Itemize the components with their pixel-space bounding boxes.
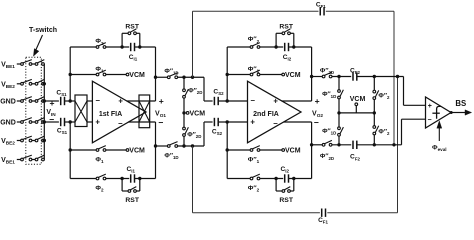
svg-text:+: + [159, 96, 164, 106]
RST switch top stage1 (parallel) [121, 33, 123, 47]
capacitor CS1 top [60, 97, 62, 105]
capacitor CS1 bottom [60, 118, 62, 126]
capacitor C_I2 top [284, 43, 286, 51]
wire Cs1 bottom to chopper [65, 121, 76, 123]
VCM terminal bottom stage2 [282, 149, 285, 152]
node smp-CF1 box top [191, 76, 194, 79]
node tap1-phi1 bottom [69, 148, 72, 151]
comparator output arrow BS [451, 112, 465, 114]
svg-text:+: + [273, 97, 278, 106]
wire to VCM circle top stage2 [260, 74, 282, 76]
center VCM line [339, 112, 374, 114]
wire vcm chain vertical mid1 [183, 77, 185, 89]
node crailB phi''2 [373, 143, 376, 146]
capacitor C_I1 bottom [130, 174, 132, 182]
wire comp rail top [312, 76, 323, 78]
node smp-vcm chain bottom [182, 144, 185, 147]
wire stage2 tap up [226, 47, 228, 101]
node C_I1 left top [120, 45, 123, 48]
switch Phi''2 comp top [373, 90, 376, 93]
node crailT phi''2 [373, 75, 376, 78]
wire phi''2 feedback row bottom [227, 178, 250, 180]
wire stage1 tap down [69, 122, 71, 179]
switch Phi2 bottom stage1 [96, 177, 99, 180]
wire switch to C_I2 [260, 46, 283, 48]
svg-text:RST: RST [125, 24, 139, 31]
svg-text:VCM: VCM [285, 148, 301, 155]
capacitor CF2 bottom [352, 141, 354, 149]
wire to CF2 bottom [332, 144, 351, 146]
node CF2 left top [337, 75, 340, 78]
capacitor C_I2 bottom [284, 174, 286, 182]
T-switch series switches row VBE1 top [17, 63, 21, 65]
svg-text:−: − [427, 117, 431, 124]
svg-text:−: − [250, 96, 255, 105]
VCM terminal top stage1 [126, 73, 129, 76]
comparator clock arrow [438, 128, 440, 141]
svg-text:+: + [118, 97, 123, 106]
wire corner up to Cs2 bottom [203, 122, 205, 146]
wire Cs2 to 2nd amp bottom [218, 121, 247, 123]
wire phi''1 row bottom stage2 [227, 149, 250, 151]
wire CF1 loop right edge 2 (to comp + rail) [397, 77, 399, 213]
wire CF1 loop top edge [193, 10, 319, 12]
chopper CHin stage1 [75, 95, 87, 127]
switch Phi''2D comp rail top [322, 75, 325, 78]
svg-text:GND: GND [0, 120, 16, 127]
svg-text:−: − [49, 115, 54, 125]
comparator hysteresis symbol [437, 106, 441, 118]
switch Phi''2D comp rail bottom [322, 143, 325, 146]
node C_I2 right bottom [292, 177, 295, 180]
RST switch bottom stage2 (parallel) [275, 179, 277, 192]
switch Phi''2D lower mid1 [183, 127, 186, 130]
switch Phi''1 top stage2 [250, 73, 253, 76]
svg-text:RST: RST [279, 24, 293, 31]
node C_I1 right bottom [138, 177, 141, 180]
node tap2 bottom [226, 120, 229, 123]
svg-text:GND: GND [0, 99, 16, 106]
node smp-CF1 box bottom [191, 144, 194, 147]
node smp-vcm chain top [182, 76, 185, 79]
svg-text:1st FIA: 1st FIA [99, 111, 122, 118]
wire comp rail bottom [312, 144, 323, 146]
wire switch to Cs2 corner top [178, 76, 204, 78]
node samp tap bottom stage1 [154, 144, 157, 147]
capacitor CF1 bottom [321, 209, 323, 217]
wire phi2 feedback row bottom [70, 178, 96, 180]
switch Phi''1D bottom sampling [167, 145, 170, 148]
svg-text:T-switch: T-switch [29, 27, 57, 34]
wire feedback bottom to Vo1 [135, 178, 156, 180]
node center line left [337, 111, 340, 114]
switch Phi1 top stage1 [96, 73, 99, 76]
svg-text:+: + [49, 98, 54, 108]
node bus-GND/VIN- [43, 120, 46, 123]
switch Phi''1D top sampling [167, 76, 170, 79]
wire to VCM circle bottom stage2 [260, 149, 282, 151]
wire feedback top to Vo1 [135, 46, 156, 48]
switch Phi''2 top stage2 [250, 46, 253, 49]
svg-text:RST: RST [279, 197, 293, 204]
svg-text:BS: BS [455, 99, 466, 108]
svg-text:−: − [158, 118, 163, 128]
VCM terminal comp [355, 103, 358, 106]
wire phi1 row bottom stage1 [70, 149, 96, 151]
T-switch series switches row VBE1 bottom [17, 159, 21, 161]
switch Phi''1D comp top [338, 90, 341, 93]
node Vo2-crail top [310, 75, 313, 78]
svg-text:+: + [250, 118, 255, 127]
capacitor CF2 top [352, 72, 354, 80]
switch Phi1 bottom stage1 [96, 149, 99, 152]
wire stage1 virtual-gnd tap up [69, 47, 71, 101]
op-amp 1st FIA [92, 81, 146, 143]
node C_I2 left bottom [274, 177, 277, 180]
wire phi''2 feedback row top [227, 46, 250, 48]
switch Phi''1 bottom stage2 [250, 149, 253, 152]
switch Phi2 top stage1 [96, 46, 99, 49]
wire phi1 row top stage1 [70, 74, 96, 76]
svg-text:2nd FIA: 2nd FIA [253, 111, 279, 118]
wire VIN- rail bus to Cs1 [44, 121, 59, 123]
VCM terminal top stage2 [282, 73, 285, 76]
capacitor CF1 top [319, 7, 321, 15]
wire corner down to Cs2 top [203, 77, 205, 101]
T-switch series switches row GND top [17, 100, 21, 102]
node Vo2-crail bottom [310, 143, 313, 146]
node crailT CF1 [396, 75, 399, 78]
wire switch to Cs2 corner bottom [178, 145, 204, 147]
svg-text:−: − [314, 117, 319, 127]
svg-text:VCM: VCM [129, 148, 145, 155]
wire phi2 feedback row top [70, 46, 96, 48]
node bus-VBE2 top [43, 82, 46, 85]
node samp tap top stage1 [154, 76, 157, 79]
svg-text:−: − [95, 96, 100, 105]
capacitor CS2 top [213, 97, 215, 105]
wire phi''1 row top stage2 [227, 74, 250, 76]
node tap2-phi''1 top [226, 73, 229, 76]
node C_I1 left bottom [120, 177, 123, 180]
node CF2 left bottom [337, 143, 340, 146]
node tap1-phi1 top [69, 73, 72, 76]
wire to CF2 top [332, 76, 351, 78]
node A1 top (virtual gnd tap) [69, 99, 72, 102]
wire phi''1D chain top [338, 77, 340, 90]
wire samp row top stage2 [156, 76, 168, 78]
wire Cs1 top to chopper [65, 100, 76, 102]
switch Phi''1D comp bottom [338, 113, 340, 127]
node C_I1 right top [138, 45, 141, 48]
capacitor CS2 bottom [213, 118, 215, 126]
svg-text:VCM: VCM [190, 111, 206, 118]
op-amp 2nd FIA [248, 81, 302, 143]
node C_I2 left top [274, 45, 277, 48]
svg-text:VCM: VCM [129, 72, 145, 79]
RST switch bottom stage1 (parallel) [121, 179, 123, 192]
wire comp- corner up [401, 119, 403, 145]
wire to VCM circle top stage1 [106, 74, 126, 76]
wire phi''2 chain comp [373, 77, 375, 91]
node bus-GND/VIN+ [43, 99, 46, 102]
svg-text:+: + [95, 118, 100, 127]
wire Vo2+ rail [282, 100, 312, 102]
T-switch label arrow [36, 35, 43, 51]
svg-text:VCM: VCM [285, 72, 301, 79]
T-switch series switches row GND bottom [17, 121, 21, 123]
wire feedback top to Vo2 [289, 46, 312, 48]
wire switch to C_I2 bottom [260, 178, 283, 180]
capacitor C_I1 top [130, 43, 132, 51]
wire VIN+ rail bus to Cs1 [44, 100, 59, 102]
wire CF1 loop right edge 1 (to comp - rail) [393, 11, 395, 145]
svg-text:−: − [273, 119, 278, 128]
wire switch to C_I1 bottom [106, 178, 129, 180]
wire CF2 top to comp corner [357, 76, 404, 78]
node vcm mid1 [182, 111, 185, 114]
node tap2-phi''1 bottom [226, 148, 229, 151]
svg-text:−: − [118, 119, 123, 128]
chopper CHout stage1 [139, 95, 150, 128]
wire samp row bottom stage2 [156, 145, 168, 147]
T-switch common bus wire [43, 64, 45, 160]
node crailB CF1 end [392, 143, 395, 146]
wire stage2 tap down [226, 122, 228, 179]
node center line right [373, 111, 376, 114]
node A1 bottom [69, 120, 72, 123]
T-switch series switches row VBE2 bottom [17, 140, 21, 142]
svg-text:RST: RST [125, 197, 139, 204]
VCM terminal bottom stage1 [126, 149, 129, 152]
wire to VCM circle bottom stage1 [106, 149, 126, 151]
wire CF1 loop left lower [192, 146, 194, 213]
switch Phi''2D upper mid1 [183, 89, 186, 92]
wire amp output rails through chopper [127, 100, 156, 102]
RST switch top stage2 (parallel) [275, 33, 277, 47]
wire CF1 loop left upper [192, 11, 194, 77]
wire switch to C_I1 [106, 46, 129, 48]
wire comp+ corner down [403, 77, 405, 106]
wire CF2 bottom to comp corner [357, 144, 402, 146]
switch Phi''2 bottom stage2 [250, 177, 253, 180]
T-switch dashed boundary box [26, 57, 42, 164]
VCM terminal mid1 [186, 112, 189, 115]
node C_I2 right top [292, 45, 295, 48]
switch Phi''2 comp bottom [373, 113, 375, 126]
node bus-VBE2 bottom [43, 139, 46, 142]
node tap2 top [226, 99, 229, 102]
svg-text:+: + [315, 96, 320, 106]
wire CF1 loop bottom edge [193, 212, 320, 214]
comparator U3 [426, 97, 452, 128]
wire chopper to amp+ input [87, 100, 92, 102]
svg-text:+: + [428, 103, 432, 110]
wire Vo2- rail [284, 121, 312, 123]
svg-text:VCM: VCM [350, 96, 366, 103]
wire feedback bottom to Vo2 [289, 178, 312, 180]
T-switch series switches row VBE2 top [17, 83, 21, 85]
wire Cs2 to 2nd amp top [218, 100, 247, 102]
